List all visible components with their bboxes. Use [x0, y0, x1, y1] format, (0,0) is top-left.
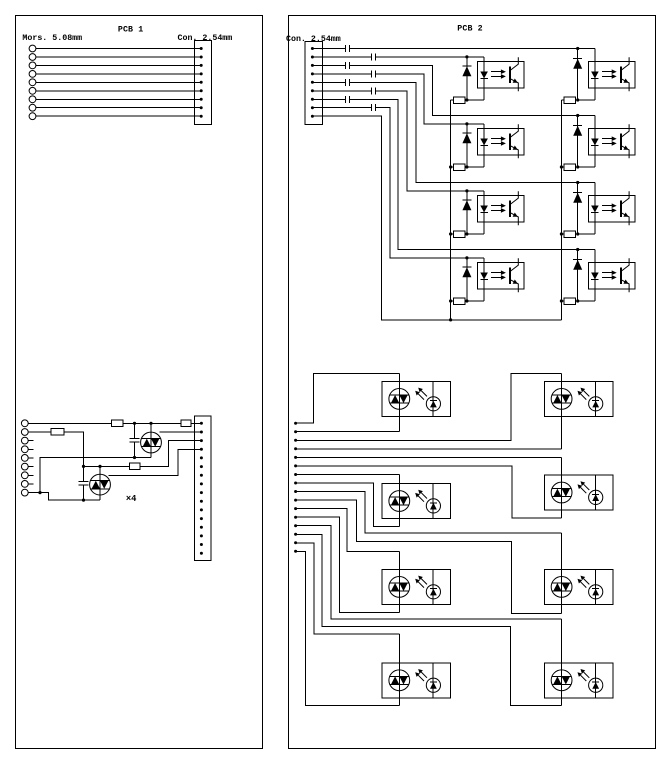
reflective sensor S2A — [382, 484, 451, 519]
PCB 1 board outline — [16, 16, 263, 749]
optocoupler U3A with diode and resistor (left) — [451, 189, 525, 237]
connector J2 (Con. 2.54mm PCB1 top) body — [194, 41, 211, 125]
wire S3A A-feed — [296, 509, 400, 552]
pad P11 (lower field) — [294, 507, 297, 510]
connector J4 pin 4 — [311, 72, 314, 75]
node return bus right — [560, 232, 563, 235]
wire S2A B-return — [296, 483, 400, 527]
wire D1 side tap to J3 pin2 — [160, 431, 202, 433]
wire terminal 5 to connector J2 pin 5 — [36, 81, 201, 83]
resistor R3 — [130, 463, 140, 470]
wire terminal 1 to connector J2 pin 1 — [36, 48, 201, 50]
capacitor C8 (series) — [372, 104, 376, 111]
wire S1A through vertical — [398, 373, 400, 431]
wire w2 run — [375, 56, 484, 58]
optocoupler U4B with diode and resistor (right) — [561, 248, 635, 304]
connector J3 pin 13 — [200, 526, 203, 529]
wire node B to R3 — [84, 465, 130, 467]
resistor R1 — [112, 420, 124, 427]
pad P12 (lower field) — [294, 516, 297, 519]
pad P2 (lower field) — [294, 430, 297, 433]
wire terminal 7 to connector J2 pin 7 — [36, 98, 201, 100]
stub wire terminal 8 — [28, 483, 33, 485]
screw terminal pin 8 (Mors. 5.08mm) — [29, 104, 36, 111]
screw terminal pin 6 (bottom block) — [21, 463, 28, 470]
wire S2B B-return — [296, 466, 562, 518]
wire terminal 2 to connector J2 pin 2 — [36, 56, 201, 58]
wire D2 side tap to J3 pin4 — [109, 449, 202, 475]
screw terminal pin 9 (Mors. 5.08mm) — [29, 113, 36, 120]
node return rail junction — [449, 318, 452, 321]
screw terminal pin 1 (bottom block) — [21, 420, 28, 427]
wire w6 run — [375, 91, 484, 191]
connector J3 pin 4 — [200, 448, 203, 451]
wire S4A A-feed — [296, 543, 400, 634]
wire terminal9 ground run — [28, 493, 100, 501]
node D2 anode junction — [98, 465, 101, 468]
node return bus left — [449, 299, 452, 302]
pad P4 (lower field) — [294, 447, 297, 450]
pad P16 (lower field) — [294, 550, 297, 553]
connector J3 pin 15 — [200, 543, 203, 546]
PCB 2 board outline — [289, 16, 656, 749]
optocoupler U4A with diode and resistor (left) — [451, 256, 525, 304]
node return bus right — [560, 299, 563, 302]
node on terminal9 wire — [38, 491, 41, 494]
connector J2 pin 5 — [200, 81, 203, 84]
screw terminal pin 2 (Mors. 5.08mm) — [29, 54, 36, 61]
wire S2A through vertical — [398, 475, 400, 527]
LED D1 vertical wire — [150, 423, 152, 457]
wire terminal2 to R4 — [28, 431, 51, 433]
connector J3 pin 9 — [200, 491, 203, 494]
wire S1B through vertical — [561, 373, 563, 449]
wire S2B through vertical — [561, 457, 563, 518]
node return bus left — [449, 165, 452, 168]
connector J4 pin 2 — [311, 56, 314, 59]
capacitor C1 — [130, 423, 140, 457]
screw terminal pin 9 (bottom block) — [21, 489, 28, 496]
connector J2 pin 9 — [200, 115, 203, 118]
pad P3 (lower field) — [294, 439, 297, 442]
screw terminal pin 3 (Mors. 5.08mm) — [29, 62, 36, 69]
wire R4 to node B — [64, 432, 84, 467]
wire S3B B-return — [296, 500, 562, 613]
capacitor C1 (series) — [345, 45, 349, 52]
connector J3 pin 10 — [200, 500, 203, 503]
capacitor C3 (series) — [345, 62, 349, 69]
connector J2 pin 6 — [200, 89, 203, 92]
wire S3B A-feed — [296, 492, 562, 533]
node return bus left — [449, 232, 452, 235]
wire S2B A-feed — [296, 456, 562, 458]
capacitor C6 (series) — [372, 87, 376, 94]
reflective sensor S3B — [544, 569, 613, 604]
stub wire terminal 6 — [28, 466, 33, 468]
screw terminal pin 5 (Mors. 5.08mm) — [29, 79, 36, 86]
wire w7 from J4 pin 7 — [312, 98, 345, 100]
connector J3 pin 3 — [200, 439, 203, 442]
wire w5 run — [349, 82, 595, 182]
resistor R2 — [181, 420, 191, 427]
wire terminal 9 to connector J2 pin 9 — [36, 115, 201, 117]
wire S1B A-feed — [296, 373, 562, 440]
return bus right column — [560, 100, 562, 320]
wire terminal 4 to connector J2 pin 4 — [36, 73, 201, 75]
optocoupler U2B with diode and resistor (right) — [561, 114, 635, 170]
connector J4 pin 1 — [311, 47, 314, 50]
wire w1 run — [349, 48, 595, 50]
connector J4 pin 6 — [311, 89, 314, 92]
wire w2 from J4 pin 2 — [312, 56, 371, 58]
wire w1 from J4 pin 1 — [312, 48, 345, 50]
wire S4B B-return — [296, 534, 562, 705]
pad P5 (lower field) — [294, 456, 297, 459]
wire S1B B-return — [296, 448, 562, 450]
node B junction — [82, 465, 85, 468]
connector J3 pin 6 — [200, 465, 203, 468]
connector J3 pin 16 — [200, 552, 203, 555]
svg-text:Con. 2.54mm: Con. 2.54mm — [286, 35, 341, 44]
return bus left column — [450, 100, 452, 320]
reflective sensor S2B — [544, 475, 613, 510]
capacitor C2 (series) — [372, 54, 376, 61]
pad P15 (lower field) — [294, 541, 297, 544]
stub wire terminal 4 — [28, 448, 33, 450]
wire S4B through vertical — [561, 619, 563, 705]
screw terminal pin 8 (bottom block) — [21, 481, 28, 488]
wire w4 from J4 pin 4 — [312, 73, 371, 75]
wire w3 from J4 pin 3 — [312, 64, 345, 66]
node C1 top junction — [133, 422, 136, 425]
wire terminal1 to R1 — [28, 422, 111, 424]
wire S1A A-feed — [296, 373, 400, 423]
screw terminal pin 4 (bottom block) — [21, 446, 28, 453]
connector J2 pin 4 — [200, 72, 203, 75]
reflective sensor S4B — [544, 663, 613, 698]
connector J3 pin 5 — [200, 456, 203, 459]
svg-text:×4: ×4 — [126, 494, 137, 504]
wire w8 from J4 pin 8 — [312, 107, 371, 109]
LED D2 (bidirectional) — [90, 474, 111, 495]
connector J4 pin 7 — [311, 98, 314, 101]
screw terminal pin 7 (bottom block) — [21, 472, 28, 479]
connector J4 pin 8 — [311, 106, 314, 109]
wire R3 to J3 pin3 — [140, 441, 202, 467]
connector J3 pin 7 — [200, 474, 203, 477]
svg-text:PCB 2: PCB 2 — [457, 25, 482, 34]
wire w5 from J4 pin 5 — [312, 81, 345, 83]
wire R2 to J3 pin1 — [191, 422, 201, 424]
wire w3 run — [349, 65, 595, 115]
connector J2 pin 3 — [200, 64, 203, 67]
pad P7 (lower field) — [294, 473, 297, 476]
screw terminal pin 5 (bottom block) — [21, 455, 28, 462]
wire w7 run — [349, 99, 595, 249]
capacitor C4 (series) — [372, 70, 376, 77]
pad P9 (lower field) — [294, 490, 297, 493]
pad P14 (lower field) — [294, 533, 297, 536]
connector J2 pin 2 — [200, 56, 203, 59]
screw terminal pin 6 (Mors. 5.08mm) — [29, 87, 36, 94]
screw terminal pin 7 (Mors. 5.08mm) — [29, 96, 36, 103]
LED D1 (bidirectional) — [141, 432, 162, 453]
pad P8 (lower field) — [294, 482, 297, 485]
wire S3A B-return — [296, 517, 400, 612]
connector J3 pin 8 — [200, 482, 203, 485]
pad P13 (lower field) — [294, 524, 297, 527]
reflective sensor S3A — [382, 569, 451, 604]
screw terminal pin 1 (Mors. 5.08mm) — [29, 45, 36, 52]
optocoupler U2A with diode and resistor (left) — [451, 122, 525, 170]
connector J4 pin 5 — [311, 81, 314, 84]
wire w9 run — [312, 116, 561, 320]
wire S3A through vertical — [398, 551, 400, 612]
wire S4B A-feed — [296, 526, 562, 619]
screw terminal pin 2 (bottom block) — [21, 429, 28, 436]
wire S4A B-return — [296, 551, 400, 705]
reflective sensor S1A — [382, 381, 451, 416]
LED D2 vertical wire — [99, 466, 101, 500]
optocoupler U1A with diode and resistor (left) — [451, 55, 525, 103]
connector J3 (Con. 2.54mm PCB1 bottom) body — [194, 416, 211, 561]
connector J4 pin 3 — [311, 64, 314, 67]
pad P1 (lower field) — [294, 422, 297, 425]
resistor R4 — [51, 429, 64, 436]
svg-text:Con. 2.54mm: Con. 2.54mm — [178, 34, 233, 43]
svg-text:PCB 1: PCB 1 — [118, 26, 143, 35]
wire R1 to R2 — [123, 422, 181, 424]
pad P10 (lower field) — [294, 499, 297, 502]
screw terminal pin 4 (Mors. 5.08mm) — [29, 71, 36, 78]
connector J3 pin 2 — [200, 431, 203, 434]
capacitor C7 (series) — [345, 96, 349, 103]
connector J4 pin 9 — [311, 115, 314, 118]
reflective sensor S1B — [544, 381, 613, 416]
connector J3 pin 12 — [200, 517, 203, 520]
stub wire terminal 5 — [28, 457, 33, 459]
connector J2 pin 1 — [200, 47, 203, 50]
node C2 bottom junction — [82, 499, 85, 502]
optocoupler U1B with diode and resistor (right) — [561, 47, 635, 103]
reflective sensor S4A — [382, 663, 451, 698]
node D1 anode junction — [149, 422, 152, 425]
wire return rail h3 — [40, 458, 151, 493]
screw terminal pin 3 (bottom block) — [21, 437, 28, 444]
wire terminal 6 to connector J2 pin 6 — [36, 90, 201, 92]
capacitor C5 (series) — [345, 79, 349, 86]
wire S3B through vertical — [561, 533, 563, 614]
connector J4 (Con. 2.54mm PCB2) body — [305, 41, 322, 124]
wire S2A A-feed — [296, 474, 400, 476]
pad P6 (lower field) — [294, 464, 297, 467]
node return bus right — [560, 165, 563, 168]
node on h3 at C1 — [133, 456, 136, 459]
capacitor C2 — [79, 466, 89, 500]
connector J3 pin 14 — [200, 534, 203, 537]
connector J2 pin 8 — [200, 106, 203, 109]
wire S1A B-return — [296, 431, 400, 433]
stub wire terminal 7 — [28, 474, 33, 476]
connector J3 pin 11 — [200, 508, 203, 511]
wire S4A through vertical — [398, 634, 400, 705]
wire w6 from J4 pin 6 — [312, 90, 371, 92]
optocoupler U3B with diode and resistor (right) — [561, 181, 635, 237]
connector J2 pin 7 — [200, 98, 203, 101]
svg-text:Mors. 5.08mm: Mors. 5.08mm — [22, 34, 82, 43]
wire w4 run — [375, 74, 484, 124]
stub wire terminal 3 — [28, 440, 33, 442]
wire terminal 3 to connector J2 pin 3 — [36, 64, 201, 66]
wire terminal 8 to connector J2 pin 8 — [36, 107, 201, 109]
wire w8 run — [375, 108, 484, 258]
connector J3 pin 1 — [200, 422, 203, 425]
